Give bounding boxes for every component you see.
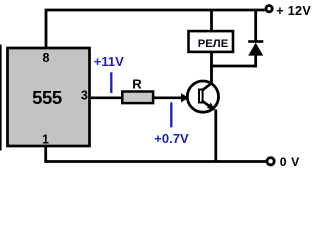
transistor Q1 emitter arrowhead [207,103,216,111]
wire: pin 3 to resistor [91,96,123,99]
svg-text:+ 12V: + 12V [276,4,311,18]
wire: diode bottom lead [254,55,257,67]
wire: resistor to base [153,96,183,99]
wire: emitter down [214,110,217,162]
transistor Q1 body [187,81,218,112]
wire: +12V top rail with pin-8 drop [46,10,265,47]
wire: relay bottom to collector [210,52,213,83]
wire: left edge artifact segment [0,45,2,151]
svg-text:+11V: +11V [94,54,124,69]
relay K1 [189,31,234,52]
probe tick +11V [110,72,112,93]
transistor Q1 base arrowhead [181,93,189,102]
transistor Q1 collector stroke [203,83,213,90]
svg-text:РЕЛЕ: РЕЛЕ [198,38,229,50]
transistor Q1 base bar [199,90,203,103]
svg-text:555: 555 [32,87,62,108]
svg-text:0 V: 0 V [280,155,300,169]
wire: 0V bottom rail with pin-1 drop [46,147,266,162]
wire: diode top lead [254,10,257,41]
wire: relay top [210,10,213,31]
svg-text:+0.7V: +0.7V [154,131,189,146]
node 0V terminal [267,158,274,165]
svg-text:1: 1 [42,133,49,147]
probe tick +0.7V [170,102,172,127]
diode D1 cathode bar [248,40,263,43]
transistor Q1 emitter stroke [203,101,214,109]
wire: junction to diode branch [210,65,257,68]
resistor R [122,92,153,104]
svg-text:8: 8 [43,51,50,65]
node +12V terminal [266,6,272,12]
diode D1 triangle [248,43,263,56]
svg-text:R: R [132,77,142,92]
svg-text:3: 3 [81,88,88,102]
IC U1 555 [8,48,90,146]
